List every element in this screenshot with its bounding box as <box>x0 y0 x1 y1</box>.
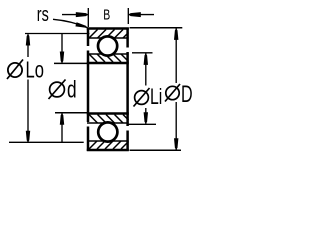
label dia-D <box>165 82 193 108</box>
dia-Lo ext line bottom <box>9 141 84 143</box>
ball top <box>98 36 117 55</box>
svg-text:rs: rs <box>37 3 49 26</box>
label dia-Lo <box>7 58 44 83</box>
ball bottom <box>98 122 117 141</box>
hatch outer ring top band <box>89 30 129 39</box>
rs leader w/ arrow <box>53 19 88 28</box>
left face <box>87 28 90 152</box>
svg-text:B: B <box>103 7 110 23</box>
bore bottom edge <box>87 112 129 115</box>
dia-D dim line + arrows <box>174 28 178 149</box>
dia-d ext line top <box>54 62 87 64</box>
B dimension line left w/ arrow <box>62 12 88 17</box>
dia-D ext line bottom <box>130 149 182 151</box>
label dia-Li <box>134 86 163 110</box>
dia-d ext line bottom <box>55 112 87 114</box>
dia-D ext line top <box>130 27 183 29</box>
raceway line outer top <box>87 37 129 39</box>
dia-Li ext line bottom <box>128 123 156 125</box>
svg-text:Li: Li <box>150 86 162 110</box>
B dimension line right w/ arrow <box>129 12 154 17</box>
hatch outer ring bottom band <box>89 141 129 149</box>
bore top edge <box>87 62 129 65</box>
dia-Li ext line top <box>132 52 153 54</box>
raceway line inner top <box>87 53 129 55</box>
svg-text:Lo: Lo <box>26 58 44 83</box>
B dimension ext line left <box>87 8 89 27</box>
bottom edge (OD bottom) <box>87 149 129 151</box>
dia-d dim tails + arrows <box>60 34 64 142</box>
svg-text:D: D <box>181 82 193 108</box>
dia-Li dim line + arrows <box>144 53 148 123</box>
raceway line inner bottom <box>87 122 129 124</box>
right face <box>126 28 129 152</box>
dia-Lo dim line + arrows <box>26 34 30 142</box>
label dia-d <box>49 77 77 103</box>
hatch inner ring top band <box>89 54 129 62</box>
svg-text:d: d <box>67 77 77 103</box>
B dimension ext line right <box>127 8 129 24</box>
top edge (OD top) <box>87 27 129 30</box>
dia-Lo ext line top <box>25 33 90 35</box>
raceway line outer bottom <box>87 140 129 142</box>
hatch inner ring bottom band <box>89 115 129 124</box>
